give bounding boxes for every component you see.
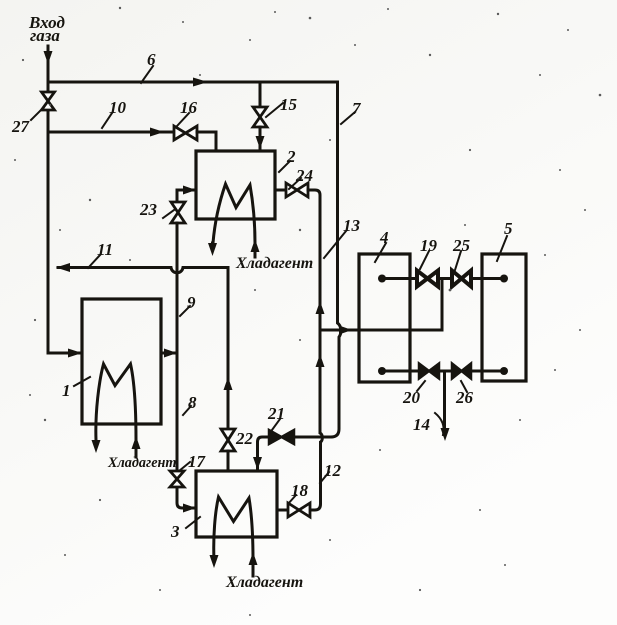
- valve 25: [452, 271, 471, 287]
- adsorber 5 box: [482, 254, 526, 381]
- valve 24: [286, 183, 308, 197]
- flow arrow up on line 13 upper: [316, 301, 325, 314]
- flow arrow into exchanger 2 top: [256, 136, 265, 149]
- heat exchanger 3 coil M: [214, 497, 253, 560]
- node dot in adsorber 5 upper: [500, 275, 508, 283]
- svg-text:26: 26: [455, 388, 474, 407]
- svg-text:5: 5: [504, 219, 513, 238]
- label 17: [179, 452, 207, 471]
- flow arrow into exchanger 2 left: [183, 186, 196, 195]
- flow arrow line 11 left: [56, 263, 70, 272]
- flow arrow line 14 down: [441, 428, 450, 441]
- valve 20: [419, 364, 439, 379]
- svg-text:газа: газа: [30, 26, 60, 45]
- svg-text:3: 3: [170, 522, 180, 541]
- wire between valves 20 and 26: [439, 370, 452, 373]
- wire valve 23 to exchanger 2 left: [177, 190, 194, 202]
- label 4: [375, 228, 389, 262]
- valve 21: [269, 430, 294, 444]
- label 24: [289, 166, 313, 189]
- wire between valves 19 and 25: [438, 277, 452, 280]
- valve 15: [253, 107, 267, 127]
- label 5: [497, 219, 513, 261]
- label 20: [402, 381, 425, 407]
- wire line 6: [48, 81, 338, 84]
- label 10: [102, 98, 127, 128]
- svg-text:4: 4: [379, 228, 389, 247]
- valve 16: [174, 126, 197, 140]
- wire exchanger 1 outlet right: [161, 352, 177, 355]
- label 21: [267, 404, 285, 430]
- svg-text:21: 21: [267, 404, 285, 423]
- wire junction to adsorber 4: [320, 279, 442, 331]
- flow arrow inlet down: [44, 51, 53, 64]
- wire exchanger 3 right to valve 18: [277, 509, 288, 512]
- refrigerant inlet arrow exchanger 2 right: [251, 239, 260, 257]
- valve 27: [42, 92, 55, 110]
- svg-text:Хладагент: Хладагент: [107, 455, 176, 471]
- label 1: [62, 377, 90, 400]
- node dot in adsorber 4 upper: [378, 275, 386, 283]
- wire line 7 vertical with hop at junction: [331, 82, 341, 437]
- valve 17: [170, 471, 184, 487]
- label 3: [170, 517, 200, 541]
- label 26: [455, 381, 474, 407]
- svg-text:27: 27: [11, 117, 31, 136]
- wire line 9 8 vertical from valve 23 down to exchanger 3: [177, 223, 194, 508]
- wire valve 21 line to exchanger 3 top: [258, 437, 332, 469]
- label 2: [279, 147, 296, 172]
- label 23: [139, 200, 174, 219]
- svg-text:22: 22: [235, 429, 254, 448]
- svg-text:7: 7: [352, 99, 362, 118]
- valve 18: [288, 503, 310, 517]
- svg-text:1: 1: [62, 381, 71, 400]
- heat exchanger 1 box: [82, 299, 161, 424]
- label 9: [180, 293, 196, 316]
- node dot in adsorber 5 lower: [500, 367, 508, 375]
- wire line 11 corner down to valve 22: [227, 268, 230, 430]
- heat exchanger 3 box: [196, 471, 277, 537]
- heat exchanger 2 coil M: [213, 184, 255, 243]
- flow arrow into exchanger 1 left: [68, 349, 82, 358]
- refrigerant outlet arrow exchanger 3 left: [210, 555, 219, 568]
- flow arrow line 10 right: [150, 128, 164, 137]
- svg-text:14: 14: [413, 415, 430, 434]
- svg-text:6: 6: [147, 50, 156, 69]
- valve 19: [417, 271, 438, 287]
- svg-text:Хладагент: Хладагент: [225, 574, 303, 591]
- svg-text:Хладагент: Хладагент: [235, 255, 313, 272]
- label 12: [320, 461, 342, 483]
- svg-text:23: 23: [139, 200, 158, 219]
- wire line 13 12 valve 24 down with hop over line 21: [308, 190, 322, 510]
- flow arrow line 6 right: [193, 78, 208, 87]
- wire line 11 with underpass dip: [58, 268, 228, 273]
- wire line 10: [48, 131, 174, 134]
- valve 23: [171, 202, 185, 223]
- refrigerant inlet arrow exchanger 1 right: [132, 436, 141, 457]
- refrigerant outlet arrow exchanger 2 left: [208, 243, 217, 256]
- flow arrow up on line 13 lower: [316, 354, 325, 367]
- flow arrow up on valve 22 line: [224, 377, 233, 390]
- label 11: [88, 240, 113, 268]
- flow arrow into adsorber 4: [339, 326, 352, 335]
- wire valve 22 to exchanger 3 top: [227, 451, 230, 471]
- label 19: [420, 236, 438, 269]
- label 6: [141, 50, 156, 83]
- wire line 14 outlet down: [443, 371, 446, 430]
- label 18: [288, 481, 309, 504]
- wire exchanger 2 right to valve 24: [275, 189, 286, 192]
- heat exchanger 2 box: [196, 151, 275, 219]
- refrigerant outlet arrow exchanger 1 left: [92, 440, 101, 453]
- refrigerant inlet arrow exchanger 3 right: [249, 552, 258, 576]
- heat exchanger 1 coil M: [96, 364, 136, 440]
- svg-text:12: 12: [324, 461, 342, 480]
- flow arrow into exchanger 3 top: [253, 457, 262, 470]
- wire gas inlet vertical main line: [48, 46, 80, 353]
- label 27: [11, 108, 43, 136]
- wire valve 26 to adsorber 5: [471, 370, 504, 373]
- flow arrow into exchanger 3 left: [183, 504, 196, 513]
- adsorber 4 box: [359, 254, 410, 382]
- wire valve 25 to adsorber 5: [471, 277, 504, 280]
- label 14: [413, 413, 444, 435]
- wire branch to valve 15: [259, 82, 262, 107]
- svg-text:9: 9: [187, 293, 196, 312]
- label gas inlet text: [28, 13, 65, 45]
- label 15: [266, 95, 298, 117]
- label 16: [177, 98, 198, 126]
- label 13: [324, 216, 361, 258]
- wire valve 15 to exchanger 2 top: [259, 127, 262, 151]
- label 8: [183, 393, 197, 415]
- valve 26: [452, 364, 471, 379]
- wire valve 16 to exchanger 2 top: [197, 132, 216, 151]
- valve 22: [221, 429, 235, 451]
- wire lower pipe adsorber 4 to valve 20: [382, 370, 419, 373]
- node dot in adsorber 4 lower: [378, 367, 386, 375]
- label 7: [341, 99, 362, 124]
- wire upper pipe adsorber 4 to valve 19: [382, 277, 417, 280]
- label 25: [452, 236, 471, 270]
- flow arrow exchanger 1 outlet right: [164, 349, 177, 358]
